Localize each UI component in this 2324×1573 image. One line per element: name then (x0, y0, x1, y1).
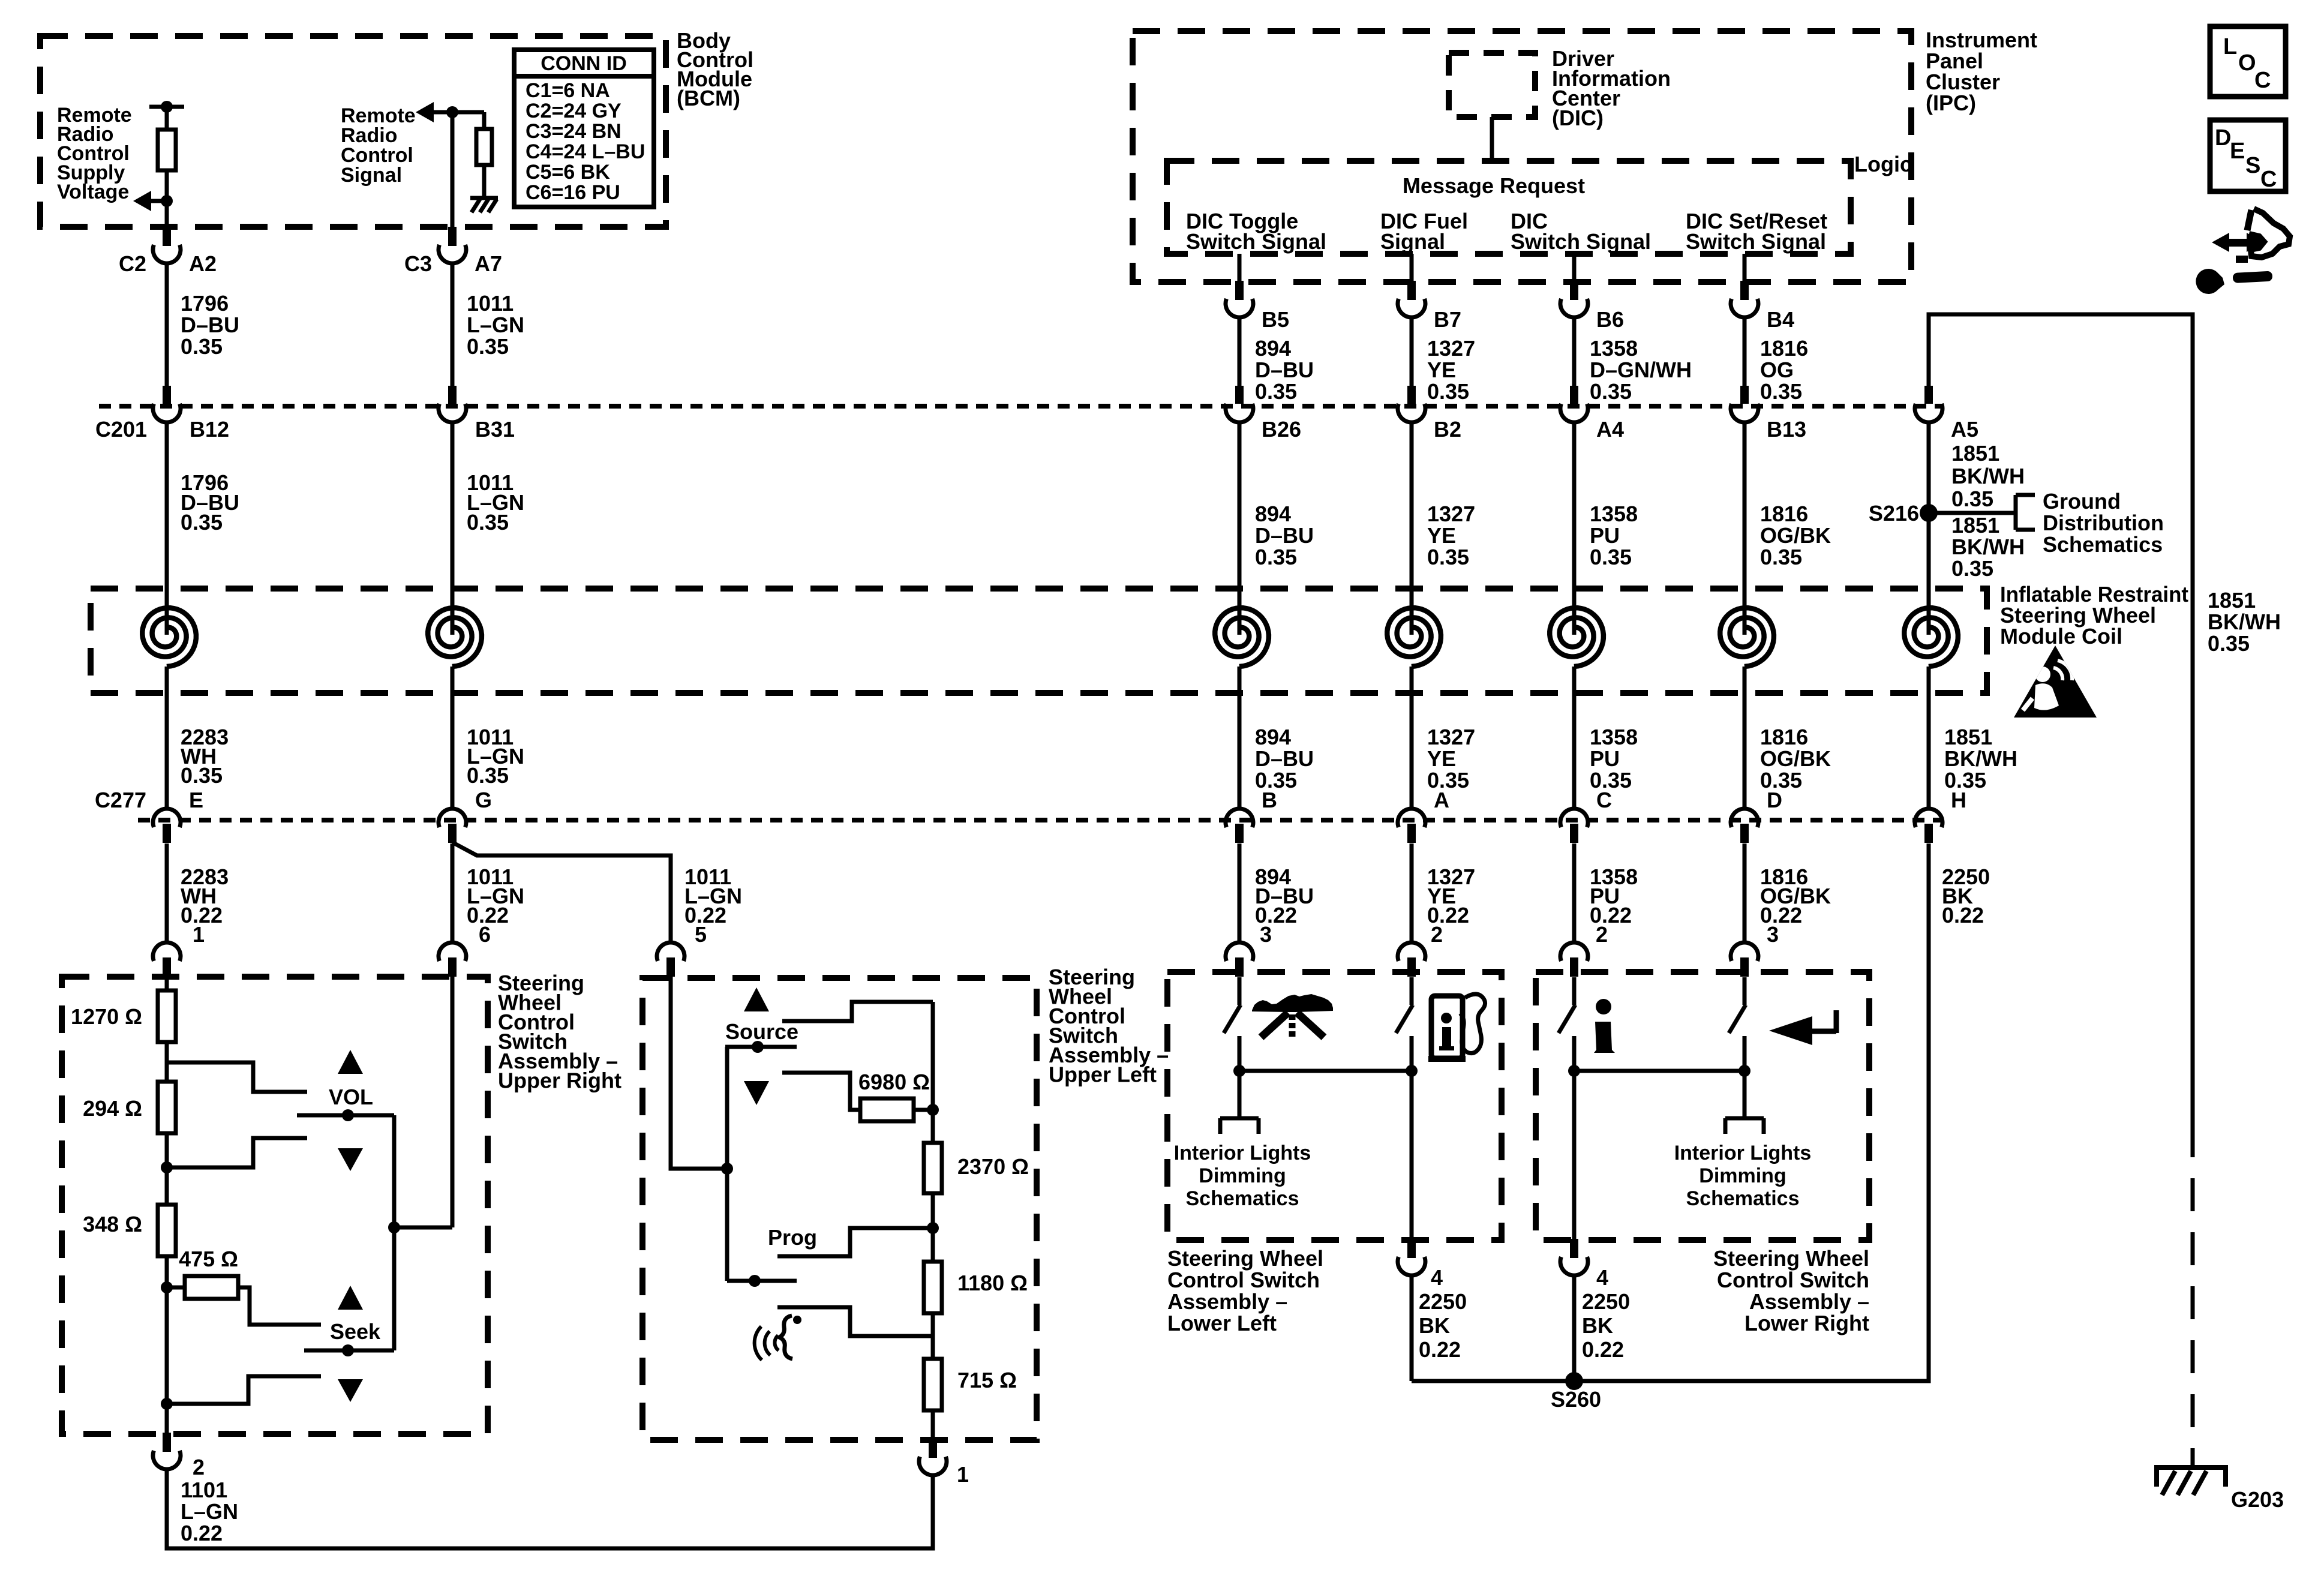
source down contact (782, 1073, 860, 1110)
wire setreset lower (1743, 1036, 1747, 1117)
ground inside BCM (470, 198, 498, 212)
svg-text:2: 2 (193, 1455, 205, 1479)
wire 1816 IPC to C201 (1743, 319, 1747, 386)
svg-text:C: C (2254, 68, 2271, 93)
svg-text:C2=24 GY: C2=24 GY (526, 100, 621, 122)
label 715 (957, 1368, 1017, 1392)
junction dot toggle (1233, 1065, 1245, 1077)
wire below coil 7 (1927, 667, 1931, 809)
wire 1796 D-BU BCM to C201 (165, 265, 169, 386)
wire 2250 BK H column (1927, 843, 1931, 1381)
road icon (1252, 994, 1333, 1039)
svg-text:PU: PU (1590, 746, 1620, 771)
svg-text:Switch Signal: Switch Signal (1686, 229, 1826, 254)
wire below coil 2 (451, 667, 455, 809)
svg-text:OG/BK: OG/BK (1760, 523, 1831, 548)
svg-text:C1=6 NA: C1=6 NA (526, 79, 610, 102)
svg-text:Seek: Seek (330, 1319, 381, 1344)
set/reset return arrow icon (1769, 1010, 1836, 1045)
node VOL up branch (167, 1062, 307, 1092)
svg-text:4: 4 (1596, 1265, 1608, 1290)
svg-text:Dimming: Dimming (1699, 1164, 1786, 1187)
inflatable restraint module coil 1 (142, 608, 196, 667)
svg-text:B7: B7 (1434, 307, 1461, 332)
label 2370 (957, 1154, 1029, 1179)
svg-text:Prog: Prog (768, 1225, 817, 1250)
svg-text:0.35: 0.35 (467, 334, 509, 359)
svg-text:1851: 1851 (1951, 441, 1999, 466)
svg-text:L–GN: L–GN (467, 313, 524, 337)
node VOL down branch (167, 1138, 307, 1167)
connector C201 pin B2 (1398, 386, 1425, 422)
Interior Lights Dimming Schematics label left (1174, 1142, 1311, 1210)
svg-text:B2: B2 (1434, 417, 1461, 442)
car with wrench service icon (2196, 209, 2290, 294)
svg-text:Voltage: Voltage (57, 181, 129, 203)
svg-text:O: O (2238, 50, 2256, 76)
svg-text:A: A (1434, 788, 1449, 812)
wire below coil 3 (1238, 667, 1242, 809)
svg-text:0.35: 0.35 (181, 763, 223, 788)
svg-text:0.22: 0.22 (1942, 903, 1984, 927)
IPC label (1926, 28, 2037, 115)
wire pin3 into box (1238, 977, 1242, 1005)
svg-text:894: 894 (1255, 725, 1291, 749)
pin labels B5 B7 B6 B4 (1262, 307, 1794, 332)
Prog label (768, 1225, 817, 1250)
svg-text:1851: 1851 (1951, 513, 1999, 538)
label 2283 WH 0.22 (181, 864, 229, 947)
wire 1270 to 294 (165, 1042, 169, 1082)
voice recognition icon (755, 1316, 801, 1360)
svg-text:D–BU: D–BU (1255, 523, 1314, 548)
label 1816 OG 0.35 row1 (1760, 336, 1808, 404)
wire 1851 C201 to coil (1927, 422, 1931, 635)
wire 294 to 348 (165, 1133, 169, 1205)
svg-text:BK/WH: BK/WH (1951, 464, 2025, 488)
connector C277 pin H (1915, 809, 1942, 843)
svg-text:3: 3 (1767, 922, 1779, 947)
svg-text:4: 4 (1431, 1265, 1443, 1290)
svg-text:A2: A2 (189, 251, 217, 276)
junction dot radio signal (446, 106, 458, 118)
svg-text:0.22: 0.22 (1582, 1337, 1624, 1362)
DESC box (2210, 120, 2286, 192)
connector C277 pin C (1560, 809, 1588, 843)
wire 1011 branch to pin5 (452, 842, 671, 943)
wire fuel switch lower (1410, 1036, 1414, 1240)
svg-text:0.35: 0.35 (1255, 545, 1297, 569)
svg-text:B5: B5 (1262, 307, 1289, 332)
junction dot prog (927, 1222, 939, 1234)
wire logic box to IPC edge x=2353 (1410, 254, 1414, 282)
svg-text:Module Coil: Module Coil (2000, 624, 2122, 649)
svg-text:B4: B4 (1767, 307, 1794, 332)
Seek up arrow (338, 1286, 363, 1310)
svg-text:1: 1 (957, 1462, 969, 1487)
label 1851 BK/WH 0.35 far right (2208, 588, 2281, 656)
svg-text:Switch Signal: Switch Signal (1511, 229, 1651, 254)
DIC Set/Reset Switch Signal label (1686, 209, 1827, 254)
svg-text:Assembly –: Assembly – (1749, 1289, 1869, 1314)
svg-text:0.35: 0.35 (1760, 379, 1802, 404)
svg-text:475 Ω: 475 Ω (179, 1247, 238, 1271)
svg-text:6980 Ω: 6980 Ω (858, 1070, 930, 1094)
svg-text:D–BU: D–BU (1255, 746, 1314, 771)
wire seek common riser (392, 1227, 397, 1350)
label 894 D-BU 0.35 row1 (1255, 336, 1314, 404)
connector C277 pin A (1398, 809, 1425, 843)
svg-text:BK: BK (1419, 1313, 1450, 1338)
resistor 1270 (158, 990, 176, 1042)
Seek label (330, 1319, 381, 1344)
svg-text:(IPC): (IPC) (1926, 91, 1976, 115)
labels C2 A2 (119, 251, 217, 276)
svg-text:0.35: 0.35 (1951, 487, 1993, 511)
upper right assembly label (498, 971, 621, 1093)
svg-text:1101: 1101 (181, 1478, 227, 1502)
labels C201 row (95, 417, 1978, 442)
label 1796 D-BU 0.35 mid (181, 470, 239, 535)
wire A5 riser and top run to ground wire (1929, 314, 2193, 1124)
svg-text:L: L (2223, 34, 2237, 59)
resistor BCM signal (476, 129, 492, 165)
svg-text:0.22: 0.22 (181, 1521, 223, 1545)
switch arm fuel (1396, 1005, 1413, 1033)
source down arrow (744, 1081, 769, 1105)
connector pin 2 lower right assembly (1560, 942, 1588, 977)
right bus top (931, 1002, 935, 1143)
remote radio control signal label (341, 104, 416, 187)
wire pin5 into box (671, 977, 727, 1169)
connector C201 pin B12 (153, 386, 181, 422)
svg-text:D–BU: D–BU (1255, 358, 1314, 382)
svg-text:Upper Right: Upper Right (498, 1068, 621, 1093)
svg-text:0.35: 0.35 (1590, 379, 1632, 404)
VOL up arrow (338, 1050, 363, 1074)
svg-text:Ground: Ground (2043, 489, 2121, 514)
link lower right switches (1574, 1069, 1744, 1073)
wire DIC to logic (1490, 117, 1494, 161)
svg-text:0.35: 0.35 (1427, 545, 1469, 569)
junction dot bottom branch (161, 1398, 173, 1410)
svg-text:0.35: 0.35 (1760, 545, 1802, 569)
junction dot below 294 (161, 1161, 173, 1173)
svg-text:B: B (1262, 788, 1277, 812)
connector pin 1 upper right assembly (153, 942, 181, 977)
svg-text:(DIC): (DIC) (1552, 106, 1604, 130)
fuel pump icon (1428, 994, 1485, 1062)
label A5 1851 BK/WH 0.35 (1951, 441, 2025, 511)
svg-text:D–GN/WH: D–GN/WH (1590, 358, 1692, 382)
svg-text:B12: B12 (190, 417, 229, 442)
label 1816 row3 (1760, 725, 1831, 792)
upper left assembly label (1049, 965, 1169, 1087)
svg-text:1327: 1327 (1427, 336, 1475, 361)
coil label (2000, 582, 2188, 649)
wire 1327 to pin2 (1410, 843, 1414, 943)
label 1270 (71, 1004, 142, 1029)
svg-text:1011: 1011 (467, 291, 514, 316)
staple to dimming schematics right (1725, 1118, 1764, 1134)
svg-text:Signal: Signal (341, 164, 402, 187)
svg-text:S: S (2245, 153, 2260, 178)
link lower left switches (1239, 1069, 1412, 1073)
label 1358 row3 (1590, 725, 1638, 792)
svg-text:CONN ID: CONN ID (541, 52, 627, 75)
wire logic box to IPC edge x=2908 (1743, 254, 1747, 282)
CONN ID table (514, 50, 654, 207)
svg-text:Logic: Logic (1854, 152, 1912, 176)
wire 1816 to pin3b (1743, 843, 1747, 943)
svg-text:C277: C277 (95, 788, 146, 812)
VOL common contact (297, 1109, 394, 1121)
label pin4 right (1582, 1265, 1630, 1362)
voice contact (777, 1307, 933, 1336)
svg-text:Lower Left: Lower Left (1167, 1311, 1277, 1335)
svg-text:C3: C3 (404, 251, 432, 276)
connector pin 2 below upper right assembly (153, 1433, 181, 1469)
Logic label (1854, 152, 1912, 176)
label 1358 PU 0.35 row2 (1590, 502, 1638, 569)
connector pin 3 lower left assembly (1226, 942, 1253, 977)
connector line C277 (138, 818, 1944, 822)
wire 1327 IPC to C201 (1410, 319, 1414, 386)
connector C201 pin A5 (1915, 386, 1942, 422)
wire 1796 C201 to coil (165, 422, 169, 635)
resistor 348 (158, 1205, 176, 1256)
svg-text:1358: 1358 (1590, 336, 1638, 361)
connector C277 pin G (439, 809, 466, 843)
label 1011 L-GN 0.35 low (467, 725, 524, 788)
svg-text:0.22: 0.22 (1419, 1337, 1461, 1362)
svg-text:B13: B13 (1767, 417, 1806, 442)
svg-text:Schematics: Schematics (1686, 1187, 1800, 1210)
switch arm setreset (1729, 1005, 1746, 1033)
svg-text:0.35: 0.35 (1255, 379, 1297, 404)
junction dot setreset (1739, 1065, 1750, 1077)
svg-text:5: 5 (695, 922, 707, 947)
svg-text:C201: C201 (95, 417, 147, 442)
splice S260 (1551, 1372, 1601, 1412)
wire info switch lower (1572, 1036, 1577, 1240)
wire pin6 riser (451, 977, 455, 1227)
label 1327 YE 0.35 row1 (1427, 336, 1475, 404)
junction dot 6980 (927, 1104, 939, 1116)
wire resistor to ground (482, 165, 487, 198)
svg-text:BK/WH: BK/WH (1951, 535, 2025, 559)
Message Request label (1403, 173, 1585, 198)
Seek common contact (304, 1344, 394, 1356)
label 1851 below S216 (1951, 513, 2025, 581)
svg-text:Interior Lights: Interior Lights (1174, 1142, 1311, 1164)
label 6980 (858, 1070, 930, 1094)
node Seek down branch (167, 1376, 321, 1404)
svg-text:1851: 1851 (2208, 588, 2256, 613)
wire below coil 4 (1410, 667, 1414, 809)
wire logic box to IPC edge x=2624 (1572, 254, 1577, 282)
wire 6980 to bus (914, 1108, 933, 1112)
svg-text:2250: 2250 (1419, 1289, 1467, 1314)
svg-text:Control Switch: Control Switch (1167, 1268, 1320, 1292)
svg-text:BK/WH: BK/WH (2208, 610, 2281, 634)
label pin1 (957, 1462, 969, 1487)
svg-text:C2: C2 (119, 251, 146, 276)
svg-text:1851: 1851 (1944, 725, 1992, 749)
svg-text:1358: 1358 (1590, 502, 1638, 526)
svg-text:Schematics: Schematics (2043, 532, 2163, 557)
wire below coil 1 (165, 667, 169, 809)
svg-text:6: 6 (479, 922, 491, 947)
svg-text:Interior Lights: Interior Lights (1674, 1142, 1812, 1164)
wire toggle switch lower (1238, 1036, 1242, 1117)
bus 1180 to 715 (931, 1313, 935, 1359)
bus 715 to box bottom (931, 1410, 935, 1440)
junction dot at 475 (161, 1281, 173, 1293)
svg-text:1327: 1327 (1427, 725, 1475, 749)
svg-text:Steering Wheel: Steering Wheel (1713, 1246, 1869, 1271)
label 2250 BK 0.22 H (1942, 864, 1990, 927)
wire pin4 right down (1572, 1275, 1577, 1381)
svg-text:H: H (1951, 788, 1966, 812)
info icon (1594, 999, 1615, 1053)
switch arm info (1559, 1005, 1575, 1033)
svg-text:1796: 1796 (181, 291, 229, 316)
Steering Wheel Control Switch Assembly Lower Left dashed box (1167, 972, 1502, 1240)
label 1011 0.22 pin6 (467, 864, 524, 947)
wire 1358 IPC to C201 (1572, 319, 1577, 386)
connector line C201 (99, 404, 1944, 409)
resistor 294 (158, 1082, 176, 1133)
label G203 (2231, 1487, 2284, 1512)
source up contact (782, 1002, 933, 1021)
junction dot fuel (1406, 1065, 1418, 1077)
connector pin 1 below upper left assembly (919, 1439, 947, 1475)
inflatable restraint module coil 4 (1387, 608, 1441, 667)
svg-text:2: 2 (1431, 922, 1443, 947)
lower left assembly label (1167, 1246, 1323, 1335)
svg-text:C3=24 BN: C3=24 BN (526, 120, 621, 143)
inflatable restraint module coil 5 (1550, 608, 1604, 667)
svg-text:0.35: 0.35 (2208, 631, 2250, 656)
svg-text:L–GN: L–GN (181, 1499, 238, 1524)
label 1358 0.22 (1590, 864, 1638, 947)
svg-text:0.35: 0.35 (467, 763, 509, 788)
svg-text:BK/WH: BK/WH (1944, 746, 2017, 771)
connector IPC pin B6 (1560, 281, 1588, 317)
arrow supply voltage (133, 191, 167, 211)
svg-text:Assembly –: Assembly – (1167, 1289, 1287, 1314)
connector C201 pin B13 (1731, 386, 1758, 422)
Instrument Panel Cluster dashed box (1133, 31, 1911, 282)
Inflatable Restraint Steering Wheel Module Coil dashed box (91, 589, 1987, 693)
svg-text:0.35: 0.35 (1427, 379, 1469, 404)
connector C201 pin A4 (1560, 386, 1588, 422)
wire 1358 to pin2b (1572, 843, 1577, 943)
wire into box pin1 (165, 977, 169, 990)
svg-text:0.35: 0.35 (1951, 556, 1993, 581)
Logic dashed box (1167, 161, 1851, 254)
label 1011 L-GN 0.35 upper (467, 291, 524, 359)
wire VOL common to junction (392, 1115, 397, 1227)
Steering Wheel Control Switch Assembly Upper Left dashed box (642, 978, 1037, 1440)
label 294 (83, 1096, 142, 1121)
connector IPC pin B4 (1731, 281, 1758, 317)
left common bus (725, 1047, 729, 1281)
label 475 (179, 1247, 238, 1271)
connector pin 2 lower left assembly (1398, 942, 1425, 977)
connector C277 pin E (153, 809, 181, 843)
svg-text:C: C (2260, 167, 2277, 192)
svg-text:Schematics: Schematics (1186, 1187, 1299, 1210)
VOL down arrow (338, 1148, 363, 1171)
svg-text:294 Ω: 294 Ω (83, 1096, 142, 1121)
wire BCM supply internal (165, 107, 169, 130)
wire pin2 down and bottom run (167, 1469, 933, 1548)
svg-text:YE: YE (1427, 746, 1456, 771)
svg-text:0.35: 0.35 (467, 510, 509, 535)
wire 894 to pin3 (1238, 843, 1242, 943)
svg-text:B6: B6 (1596, 307, 1624, 332)
wire 2283 to pin1 (165, 843, 169, 943)
svg-text:Switch Signal: Switch Signal (1186, 229, 1326, 254)
Driver Information Center dashed box (1449, 53, 1535, 117)
svg-text:Dimming: Dimming (1199, 1164, 1286, 1187)
svg-text:D–BU: D–BU (181, 313, 239, 337)
connector C201 pin B31 (439, 386, 466, 422)
inflatable restraint module coil 6 (1720, 608, 1774, 667)
SRS warning triangle (2014, 646, 2097, 718)
label 1327 row3 (1427, 725, 1475, 792)
resistor 2370 (924, 1143, 942, 1193)
wire 894 IPC to C201 (1238, 319, 1242, 386)
svg-text:Message Request: Message Request (1403, 173, 1585, 198)
label 1180 (957, 1271, 1028, 1295)
svg-text:1: 1 (193, 922, 205, 947)
svg-text:1180 Ω: 1180 Ω (957, 1271, 1028, 1295)
svg-text:3: 3 (1260, 922, 1272, 947)
wire 1327 C201 to coil (1410, 422, 1414, 635)
svg-text:Upper Left: Upper Left (1049, 1062, 1157, 1087)
svg-text:A4: A4 (1596, 417, 1624, 442)
label 894 row3 (1255, 725, 1314, 792)
svg-text:0.35: 0.35 (181, 510, 223, 535)
resistor 475 horizontal (167, 1276, 238, 1299)
svg-text:1816: 1816 (1760, 336, 1808, 361)
svg-text:Steering Wheel: Steering Wheel (1167, 1246, 1323, 1271)
svg-text:G203: G203 (2231, 1487, 2284, 1512)
BCM label (677, 28, 753, 110)
label 1816 OG/BK 0.35 row2 (1760, 502, 1831, 569)
inflatable restraint module coil 7 (1904, 608, 1958, 667)
svg-text:C: C (1596, 788, 1612, 812)
label 894 D-BU 0.35 row2 (1255, 502, 1314, 569)
svg-text:D: D (2215, 125, 2231, 151)
svg-text:A7: A7 (475, 251, 502, 276)
label 1796 D-BU 0.35 upper (181, 291, 239, 359)
switch arm toggle (1224, 1005, 1241, 1033)
connector pin 4 lower right (1560, 1239, 1588, 1275)
svg-text:Lower Right: Lower Right (1744, 1311, 1869, 1335)
svg-text:OG: OG (1760, 358, 1794, 382)
DIC label (1552, 46, 1671, 130)
Steering Wheel Control Switch Assembly Lower Right dashed box (1536, 972, 1869, 1240)
svg-text:S216: S216 (1869, 501, 1919, 526)
junction dot supply voltage (161, 195, 173, 207)
wire below resistor (165, 170, 169, 228)
connector C277 pin D (1731, 809, 1758, 843)
wire ground dashed (2191, 1124, 2195, 1466)
